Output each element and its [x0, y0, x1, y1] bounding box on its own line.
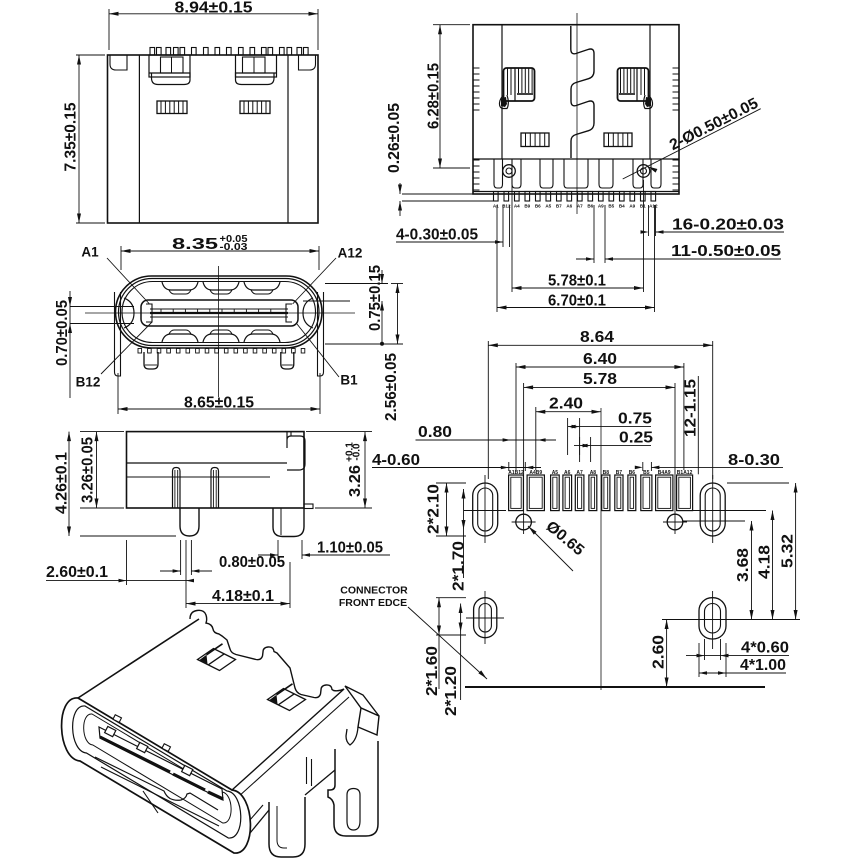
- svg-text:2*2.10: 2*2.10: [426, 484, 443, 534]
- view3 right mounting leg: [281, 352, 294, 369]
- footprint left via hole dia0.65: [516, 514, 532, 530]
- svg-text:A4B9: A4B9: [529, 470, 542, 476]
- svg-text:B1: B1: [640, 204, 646, 209]
- dimension 5.78 +/-0.1 view2: [511, 176, 513, 292]
- view3 shell inner cavity: [122, 282, 316, 343]
- view2 left contact window hatched: [521, 133, 549, 147]
- svg-text:3.26±0.05: 3.26±0.05: [80, 437, 97, 503]
- svg-text:0.70±0.05: 0.70±0.05: [54, 300, 71, 366]
- svg-text:B6: B6: [587, 204, 593, 209]
- view2 right edge serrations: [673, 67, 680, 69]
- svg-text:B4: B4: [619, 204, 625, 209]
- svg-text:4.26±0.1: 4.26±0.1: [54, 452, 71, 514]
- view4 horizontal shell lines: [127, 462, 288, 464]
- 3d view left face seam: [143, 791, 158, 813]
- dimension 8.65 +/-0.15 bottom view3: [117, 373, 119, 414]
- svg-text:8.65±0.15: 8.65±0.15: [184, 395, 254, 412]
- view1 top solder pins: [150, 48, 155, 56]
- svg-text:16-0.20±0.03: 16-0.20±0.03: [672, 217, 784, 234]
- svg-text:0.25: 0.25: [619, 430, 653, 447]
- svg-text:2*1.20: 2*1.20: [443, 666, 460, 716]
- svg-text:FRONT EDCE: FRONT EDCE: [339, 597, 407, 609]
- view2 pin housing slots: [494, 159, 503, 188]
- view3 left mounting leg: [144, 352, 158, 369]
- svg-text:4*0.60: 4*0.60: [741, 640, 789, 657]
- svg-text:4-0.30±0.05: 4-0.30±0.05: [396, 227, 478, 244]
- svg-text:6.70±0.1: 6.70±0.1: [548, 293, 606, 310]
- svg-text:6.40: 6.40: [583, 351, 617, 368]
- 3d view back edge with tab and notches: [190, 610, 344, 697]
- svg-text:B12: B12: [76, 375, 101, 390]
- svg-text:2.60: 2.60: [651, 635, 668, 669]
- dimension 0.80 +/-0.05 view4: [180, 540, 182, 575]
- svg-text:5.78±0.1: 5.78±0.1: [548, 273, 606, 290]
- svg-text:B8: B8: [603, 470, 610, 476]
- view2 left edge serrations: [473, 67, 480, 69]
- svg-text:2.56±0.05: 2.56±0.05: [383, 353, 400, 421]
- dimension 2.60 +/-0.1 view4: [126, 540, 128, 585]
- dimension 4.18 footprint: [727, 510, 766, 512]
- dimension 0.26 +/-0.05 view2: [402, 193, 473, 195]
- 3d view top hole 1 with flap: [198, 649, 236, 671]
- view2 right latch hatched: [618, 68, 649, 101]
- dimension 8.35 tol top view3: [120, 246, 122, 270]
- view3 tongue contact ticks: [160, 310, 162, 313]
- svg-text:0.75±0.15: 0.75±0.15: [367, 265, 384, 331]
- view1 left latch: [149, 55, 190, 77]
- 3d view front oval inner ring: [73, 706, 241, 838]
- view3 horizontal centerline: [85, 312, 355, 314]
- svg-text:A5: A5: [552, 470, 559, 476]
- dimension 12-1.15 footprint: [697, 376, 699, 474]
- dimension 2x1.70 footprint: [463, 489, 465, 530]
- svg-text:5.78: 5.78: [583, 371, 617, 388]
- dimension 5.32 footprint: [727, 482, 789, 484]
- dimension 4.18 +/-0.1 view4: [185, 540, 187, 608]
- svg-text:B6: B6: [535, 204, 541, 209]
- svg-text:A1B12: A1B12: [508, 470, 524, 476]
- svg-text:3.26: 3.26: [347, 465, 364, 497]
- view2 right latch contact hook: [644, 95, 653, 109]
- footprint left oval pad: [473, 483, 498, 536]
- svg-text:A4: A4: [514, 204, 520, 209]
- dimension 6.28 +/-0.15 view2: [433, 24, 470, 26]
- svg-text:A1: A1: [81, 245, 99, 260]
- svg-text:-0.03: -0.03: [220, 242, 249, 253]
- view2 left latch contact hook: [499, 95, 508, 109]
- view3 right side tab: [318, 292, 324, 376]
- footprint right via hole dia0.65: [667, 514, 683, 530]
- view3 left side clip: [124, 298, 134, 328]
- view1 inner vertical walls: [138, 55, 140, 223]
- svg-text:5.32: 5.32: [780, 534, 797, 568]
- footprint vertical centerline: [600, 408, 602, 690]
- dimension 2x1.60 footprint: [436, 597, 466, 599]
- view1 right contact window hatched: [240, 101, 270, 114]
- dimension 3.26 +/-0.05 view4: [96, 432, 98, 508]
- view1 right ear notch: [299, 55, 319, 70]
- dimension 2.60 footprint: [662, 619, 680, 621]
- svg-text:8-0.30: 8-0.30: [728, 452, 780, 469]
- dimension 6.40 footprint: [515, 363, 517, 470]
- svg-text:4*1.00: 4*1.00: [740, 657, 786, 674]
- svg-text:1.10±0.05: 1.10±0.05: [317, 540, 383, 557]
- view2 right rivet: [637, 165, 650, 178]
- 3d view inner ring edge ticks: [113, 715, 122, 723]
- footprint lower left oval pad: [474, 598, 497, 638]
- dimension 2-dia0.50 +/-0.05 leader view2: [623, 109, 761, 179]
- view3 shell outer: [116, 276, 323, 348]
- svg-text:A12: A12: [649, 204, 658, 209]
- svg-text:2*1.70: 2*1.70: [451, 541, 468, 591]
- 3d view right ear: [345, 686, 379, 716]
- view1 left ear notch: [108, 55, 128, 70]
- dimension 8.64 footprint: [487, 341, 489, 479]
- svg-text:A8: A8: [590, 470, 597, 476]
- svg-text:2.60±0.1: 2.60±0.1: [46, 564, 108, 581]
- svg-text:B9: B9: [524, 204, 530, 209]
- 3d view tongue: [99, 727, 223, 800]
- svg-text:B5: B5: [608, 204, 614, 209]
- 3d view bottom right body edges: [236, 810, 269, 850]
- dimension 4-0.30 +/-0.05 view2: [502, 205, 504, 247]
- dimension 3.68 footprint: [683, 520, 745, 522]
- view3 tongue contacts band: [150, 308, 288, 310]
- footprint pad row: [509, 475, 524, 511]
- view3 bottom serration teeth: [138, 349, 142, 354]
- view4 pin 2: [211, 468, 219, 509]
- view3 tongue end hooks: [146, 304, 152, 322]
- view1 body outline: [108, 55, 319, 223]
- dimension 3.26 tol right view4: [306, 431, 372, 433]
- svg-text:B4A9: B4A9: [658, 470, 671, 476]
- dimension 2x1.20 footprint: [460, 604, 462, 633]
- svg-text:A9: A9: [598, 204, 604, 209]
- footprint lower right oval pad: [699, 598, 726, 639]
- 3d view top right edge: [232, 689, 344, 790]
- view4 left SMT leg: [180, 508, 199, 536]
- view2 pins row: [494, 192, 499, 202]
- dimension 7.35 +/-0.15 left height view1: [76, 54, 105, 56]
- svg-text:4.18: 4.18: [757, 545, 774, 579]
- view2 bottom band: [473, 158, 679, 160]
- svg-text:A7: A7: [577, 204, 583, 209]
- svg-text:0.80±0.05: 0.80±0.05: [219, 554, 285, 571]
- svg-text:7.35±0.15: 7.35±0.15: [63, 102, 80, 171]
- svg-text:A12: A12: [338, 246, 363, 261]
- view3 top spring bumps: [162, 282, 198, 290]
- 3d view tongue top bumps: [105, 726, 116, 736]
- svg-text:A9: A9: [629, 204, 635, 209]
- dimension 2.40 footprint: [535, 407, 537, 470]
- view3 tongue: [141, 300, 298, 326]
- 3d view lower lip lines: [95, 757, 218, 810]
- svg-text:4-0.60: 4-0.60: [372, 452, 420, 469]
- view1 right latch: [236, 55, 277, 77]
- 3d view right face inner lines: [238, 697, 349, 797]
- view2 body outline: [473, 25, 679, 194]
- svg-text:B5: B5: [643, 470, 650, 476]
- svg-text:11-0.50±0.05: 11-0.50±0.05: [671, 243, 781, 260]
- svg-text:0.75: 0.75: [618, 411, 652, 428]
- view2 vertical centerline: [576, 13, 578, 214]
- view4 top right bent tab: [287, 432, 305, 470]
- svg-text:12-1.15: 12-1.15: [683, 379, 700, 437]
- svg-text:8.64: 8.64: [580, 329, 614, 346]
- svg-text:0.26±0.05: 0.26±0.05: [386, 103, 403, 173]
- view4 pin 1: [173, 468, 181, 509]
- svg-text:A6: A6: [564, 470, 571, 476]
- dimension 2x2.10 footprint: [436, 482, 466, 484]
- svg-text:-0.0: -0.0: [352, 443, 363, 461]
- view2 left latch hatched: [504, 68, 535, 101]
- dimension 0.25 footprint: [579, 437, 581, 462]
- footprint right oval pad: [700, 483, 725, 536]
- svg-text:A5: A5: [545, 204, 551, 209]
- svg-text:6.28±0.15: 6.28±0.15: [426, 63, 443, 129]
- view3 bottom spring bumps: [162, 334, 198, 342]
- svg-text:8.94±0.15: 8.94±0.15: [175, 0, 253, 16]
- svg-text:2*1.60: 2*1.60: [424, 646, 441, 696]
- dimension 0.70 +/-0.05 left view3: [70, 306, 134, 308]
- 3d view tongue front dark edge: [100, 737, 170, 772]
- view3 right side clip: [303, 298, 313, 328]
- svg-text:4.18±0.1: 4.18±0.1: [212, 588, 274, 605]
- svg-text:B7: B7: [616, 470, 623, 476]
- svg-text:B1A12: B1A12: [677, 470, 693, 476]
- footprint connector front edge line: [465, 686, 765, 688]
- svg-text:0.80: 0.80: [418, 424, 452, 441]
- svg-text:3.68: 3.68: [735, 548, 752, 582]
- svg-text:A1: A1: [493, 204, 499, 209]
- view4 right shell leg: [273, 508, 304, 537]
- svg-text:B1: B1: [340, 373, 358, 388]
- dimension 4.26 +/-0.1 view4: [80, 431, 124, 433]
- dimension 0.75 footprint: [567, 418, 569, 455]
- dimension 8-0.30 footprint: [642, 462, 644, 471]
- view2 shield seam zigzag: [571, 26, 594, 158]
- svg-text:2.40: 2.40: [549, 396, 583, 413]
- dimension 4-0.60 footprint: [508, 462, 510, 471]
- svg-text:B6: B6: [629, 470, 636, 476]
- svg-text:B7: B7: [556, 204, 562, 209]
- dimension 16-0.20 +/-0.03 view2: [648, 205, 650, 236]
- dimension dia0.65 leader footprint: [528, 526, 573, 571]
- dimension 2.56 +/-0.05 right view3: [391, 283, 403, 285]
- dimension 1.10 +/-0.05 view4: [277, 540, 279, 559]
- 3d view top face outline: [78, 619, 199, 698]
- dimension 6.70 +/-0.1 view2: [496, 205, 498, 312]
- 3d view cavity inner line: [84, 714, 231, 823]
- view2 right contact window hatched: [604, 133, 632, 147]
- view4 right tail pin: [304, 504, 313, 509]
- view2 inner vertical walls: [501, 25, 503, 159]
- view2 left rivet: [503, 165, 516, 178]
- svg-text:8.35: 8.35: [172, 236, 219, 253]
- dimension 0.75 +/-0.15 right view3: [325, 283, 388, 285]
- dimension 4x1.00 footprint: [698, 643, 700, 677]
- dimension 0.80 footprint: [416, 439, 557, 441]
- view3 vertical centerline: [218, 266, 220, 397]
- dimension 11-0.50 +/-0.05 view2: [593, 205, 595, 263]
- 3d view front oval outer ring: [62, 698, 251, 853]
- svg-text:A6: A6: [566, 204, 572, 209]
- dimension 4x0.60 footprint: [704, 639, 706, 660]
- 3d view back right leg: [328, 741, 378, 836]
- view3 left side tab: [115, 292, 121, 376]
- view3 shell mid: [119, 279, 320, 346]
- dimension 5.78 footprint: [523, 383, 525, 510]
- view4 body outline: [127, 432, 305, 508]
- 3d view top hole 2 with flap: [268, 689, 306, 711]
- 3d view front right leg: [269, 797, 305, 857]
- view1 left contact window hatched: [157, 101, 187, 114]
- dimension 8.94 +/-0.15 top width view1: [108, 9, 110, 50]
- svg-text:A7: A7: [576, 470, 583, 476]
- svg-text:CONNECTOR: CONNECTOR: [340, 585, 408, 597]
